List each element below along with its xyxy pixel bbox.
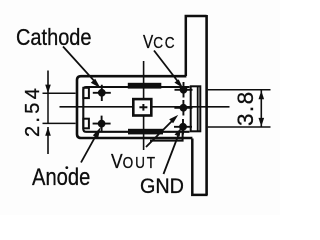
dimension 3.8 extension lines xyxy=(208,90,271,127)
horizontal centerline xyxy=(60,106,230,108)
label VOUT xyxy=(111,150,157,174)
center cross mark xyxy=(139,104,147,111)
mounting plate right edge xyxy=(205,15,208,195)
leader Cathode xyxy=(63,47,101,89)
connector bracket around right pins xyxy=(191,86,201,131)
leader VOUT xyxy=(146,115,178,147)
pin VCC (top right) xyxy=(175,82,193,98)
label Anode xyxy=(32,164,90,192)
sensor body inner outline top edge xyxy=(83,87,189,132)
leader VCC xyxy=(154,51,183,89)
label VCC xyxy=(143,32,176,53)
thick shading bar top xyxy=(128,83,162,89)
pin VOUT (middle right) xyxy=(174,100,192,116)
pin cathode (top left) xyxy=(93,85,111,101)
label GND xyxy=(140,174,184,199)
scan speck xyxy=(65,166,68,169)
dimension 3.8 arrow line xyxy=(259,90,265,127)
dimension 2.54 arrow lines xyxy=(45,71,51,155)
pin GND (bottom right) xyxy=(174,119,192,135)
sensor body outer outline xyxy=(77,76,192,138)
leader Anode xyxy=(81,127,101,162)
leader GND xyxy=(164,128,182,174)
GND lead elbow line xyxy=(150,128,183,141)
inner latch tab lower left xyxy=(83,119,89,129)
dimension 2.54 extension lines xyxy=(43,93,76,123)
label Cathode xyxy=(16,24,92,51)
mounting plate top tab xyxy=(186,16,207,76)
dimension text 2.54 xyxy=(22,85,45,137)
inner latch tab upper left xyxy=(83,88,89,98)
thick shading bar bottom xyxy=(128,129,163,135)
dimension text 3.8 xyxy=(233,90,259,125)
center square emitter window xyxy=(133,99,151,115)
vertical centerline xyxy=(143,61,145,150)
mounting plate bottom tab xyxy=(192,139,207,195)
pin anode (bottom left) xyxy=(93,116,111,132)
